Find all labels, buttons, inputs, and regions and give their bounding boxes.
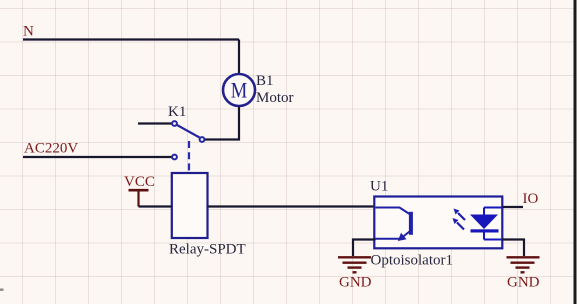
svg-text:Motor: Motor <box>256 90 294 106</box>
wire opto left pin to ground <box>353 240 376 257</box>
svg-text:IO: IO <box>523 191 539 207</box>
wire switch top feed <box>138 122 172 124</box>
svg-text:GND: GND <box>507 275 540 291</box>
phototransistor <box>376 208 411 242</box>
wire opto right pin to ground <box>502 240 524 257</box>
svg-text:M: M <box>231 78 248 103</box>
svg-text:Relay-SPDT: Relay-SPDT <box>169 242 246 258</box>
wire relay to optoisolator <box>208 205 376 207</box>
relay coil Relay-SPDT <box>172 173 208 238</box>
wire IO <box>503 206 524 208</box>
switch K1 <box>172 121 204 159</box>
svg-text:VCC: VCC <box>124 174 155 190</box>
LED <box>470 208 502 240</box>
ground right <box>507 257 540 272</box>
wire AC220V horizontal <box>23 156 172 158</box>
svg-text:Optoisolator1: Optoisolator1 <box>371 253 454 269</box>
dashed actuator link <box>188 141 190 173</box>
svg-text:B1: B1 <box>256 73 274 89</box>
svg-text:GND: GND <box>339 275 372 291</box>
light arrows <box>453 209 466 230</box>
wire N horizontal <box>23 38 239 40</box>
optoisolator U1 box <box>374 197 502 249</box>
svg-text:K1: K1 <box>168 104 186 120</box>
edge tick left <box>0 289 4 291</box>
power VCC bar <box>129 190 149 206</box>
wire motor bottom to switch <box>204 107 239 140</box>
motor B1 <box>223 74 255 106</box>
svg-text:U1: U1 <box>370 179 388 195</box>
wire VCC to relay <box>139 205 172 207</box>
ground left <box>338 257 371 272</box>
svg-text:N: N <box>23 24 34 40</box>
frame edge right <box>574 0 580 304</box>
svg-text:AC220V: AC220V <box>24 141 78 157</box>
wire N down to motor <box>238 40 240 74</box>
